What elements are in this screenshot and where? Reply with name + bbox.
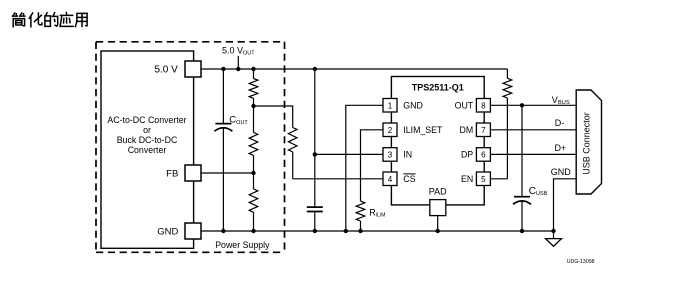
svg-text:AC-to-DC Converter: AC-to-DC Converter bbox=[107, 115, 186, 125]
converter box bbox=[101, 51, 194, 248]
pin 4 box bbox=[383, 172, 397, 186]
pin 8 box bbox=[476, 99, 490, 113]
resistor R-EN pullup bbox=[503, 69, 512, 179]
wire PAD to ground rail bbox=[437, 216, 439, 231]
converter pin box FB bbox=[185, 165, 201, 181]
pin 6 box bbox=[476, 148, 490, 162]
converter pin box 5.0V bbox=[185, 61, 201, 77]
简 bbox=[13, 13, 18, 16]
wire CS to pin4 bbox=[293, 178, 383, 180]
svg-text:GND: GND bbox=[551, 167, 572, 177]
svg-text:8: 8 bbox=[481, 101, 486, 110]
wire VOUT stub bbox=[237, 56, 239, 69]
wire EN to pullup bbox=[490, 178, 507, 180]
resistor R-div1 bbox=[249, 69, 258, 106]
svg-text:or: or bbox=[143, 125, 151, 135]
svg-text:PAD: PAD bbox=[429, 187, 447, 197]
wire FB bbox=[201, 172, 254, 174]
svg-text:D+: D+ bbox=[555, 143, 567, 153]
svg-text:USB Connector: USB Connector bbox=[582, 112, 592, 175]
svg-text:Buck DC-to-DC: Buck DC-to-DC bbox=[117, 135, 178, 145]
resistor RILIM bbox=[356, 201, 365, 231]
svg-text:5: 5 bbox=[481, 175, 486, 184]
svg-text:FB: FB bbox=[166, 168, 178, 179]
svg-text:Converter: Converter bbox=[128, 145, 167, 155]
capacitor COUT bbox=[214, 69, 232, 231]
svg-text:5.0 V: 5.0 V bbox=[154, 65, 178, 76]
svg-text:CS: CS bbox=[403, 174, 415, 184]
wire node A to CS resistor bbox=[254, 106, 293, 128]
5V rail wire bbox=[201, 68, 507, 70]
svg-text:OUT: OUT bbox=[455, 101, 474, 111]
svg-text:DM: DM bbox=[460, 125, 474, 135]
的 bbox=[45, 13, 51, 27]
pin 2 box bbox=[383, 123, 397, 137]
wire ILIM_SET pin2 bbox=[361, 130, 384, 201]
svg-text:ILIM_SET: ILIM_SET bbox=[403, 125, 443, 135]
title 简化的应用 (hand-drawn CJK strokes) bbox=[13, 13, 88, 27]
capacitor CUSB bbox=[513, 105, 531, 231]
svg-text:6: 6 bbox=[481, 150, 486, 159]
svg-text:GND: GND bbox=[403, 101, 423, 111]
wire USB GND bbox=[554, 179, 578, 239]
ground symbol bbox=[546, 239, 562, 247]
wire DP / D+ bbox=[490, 153, 577, 155]
svg-text:4: 4 bbox=[388, 175, 393, 184]
svg-text:D-: D- bbox=[555, 118, 565, 128]
pin 5 box bbox=[476, 172, 490, 186]
pin 3 box bbox=[383, 148, 397, 162]
用 bbox=[75, 13, 87, 26]
wire GND pin1 bbox=[346, 105, 383, 231]
svg-text:2: 2 bbox=[388, 126, 393, 135]
svg-text:7: 7 bbox=[481, 126, 486, 135]
capacitor C-IN bbox=[307, 207, 323, 231]
PAD box bbox=[430, 200, 446, 216]
wire IN to pin3 bbox=[315, 153, 383, 155]
converter text AC-to-DC bbox=[107, 115, 186, 155]
converter pin box GND bbox=[185, 223, 201, 239]
wire DM / D- bbox=[490, 129, 577, 131]
svg-text:IN: IN bbox=[403, 150, 412, 160]
resistor R-div2 bbox=[249, 106, 258, 173]
GND rail wire bbox=[201, 230, 554, 232]
USB connector body bbox=[576, 90, 601, 194]
svg-text:GND: GND bbox=[157, 226, 178, 237]
svg-text:TPS2511-Q1: TPS2511-Q1 bbox=[412, 83, 464, 93]
pin 1 box bbox=[383, 99, 397, 113]
化 bbox=[29, 13, 33, 27]
svg-text:1: 1 bbox=[388, 101, 393, 110]
svg-text:EN: EN bbox=[461, 174, 473, 184]
pin 7 box bbox=[476, 123, 490, 137]
wire OUT / VBUS bbox=[490, 104, 577, 106]
svg-text:DP: DP bbox=[461, 150, 473, 160]
svg-text:3: 3 bbox=[388, 150, 393, 159]
resistor R-div3 bbox=[249, 173, 258, 231]
IC U1 TPS2511-Q1 box bbox=[391, 77, 484, 205]
wire IN branch vertical bbox=[314, 69, 316, 207]
dashed power-supply boundary box bbox=[96, 42, 285, 253]
resistor R-CS bbox=[288, 128, 297, 179]
应 bbox=[60, 13, 73, 27]
svg-text:UDG-13098: UDG-13098 bbox=[567, 259, 595, 265]
svg-text:Power Supply: Power Supply bbox=[215, 240, 270, 250]
